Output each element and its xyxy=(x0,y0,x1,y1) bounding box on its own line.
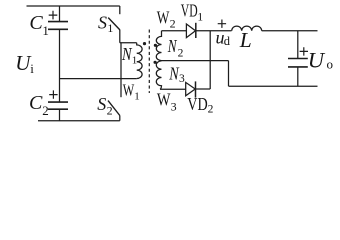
svg-text:W: W xyxy=(157,90,171,110)
wire node A to primary xyxy=(120,42,137,44)
wire VD2 cathode lead xyxy=(196,88,211,90)
secondary winding N3 xyxy=(156,61,161,89)
wire bottom rail xyxy=(38,120,120,122)
wire W3 lead xyxy=(160,88,186,90)
svg-text:U: U xyxy=(308,48,326,73)
svg-text:2: 2 xyxy=(170,16,176,30)
wire inductor to output xyxy=(262,30,318,32)
label ud xyxy=(216,28,231,48)
svg-text:2: 2 xyxy=(42,103,49,118)
label W2 xyxy=(157,7,176,30)
svg-text:3: 3 xyxy=(171,99,177,113)
capacitor C2 xyxy=(48,102,68,121)
capacitor Co branch xyxy=(288,31,308,86)
svg-text:2: 2 xyxy=(107,104,113,118)
svg-text:1: 1 xyxy=(107,21,113,35)
transformer core xyxy=(148,30,150,94)
plus sign ud xyxy=(218,20,226,28)
label W1 xyxy=(123,81,140,103)
polarity dot primary xyxy=(143,42,146,45)
label S2 xyxy=(97,94,112,118)
svg-text:W: W xyxy=(123,81,135,100)
svg-text:C: C xyxy=(29,92,43,114)
label N3 xyxy=(168,63,185,85)
diode VD2 xyxy=(186,81,196,97)
label W3 xyxy=(157,90,177,114)
svg-text:d: d xyxy=(224,34,231,48)
wire node B mid xyxy=(60,78,137,80)
label Ui xyxy=(15,51,34,76)
diode VD1 xyxy=(186,23,195,38)
svg-text:C: C xyxy=(29,12,43,34)
label VD1 xyxy=(181,1,204,24)
wire node A to S2 xyxy=(120,43,122,97)
capacitor C1 xyxy=(48,6,68,29)
label C1 xyxy=(29,12,49,38)
svg-text:i: i xyxy=(30,61,34,76)
plus sign Uo xyxy=(300,47,308,55)
svg-text:o: o xyxy=(327,57,334,72)
polarity dot N2 xyxy=(154,44,157,47)
wire capacitor chain xyxy=(59,29,61,102)
switch S2 xyxy=(108,101,120,121)
svg-text:S: S xyxy=(97,94,106,114)
svg-text:3: 3 xyxy=(179,73,185,85)
svg-text:2: 2 xyxy=(208,104,214,116)
polarity dot N3 xyxy=(154,61,157,64)
inductor L xyxy=(232,26,262,31)
svg-text:1: 1 xyxy=(132,55,138,67)
plus sign C2 xyxy=(49,90,57,98)
plus sign C1 xyxy=(49,11,58,20)
transformer T1 primary winding N1 xyxy=(137,43,142,79)
label S1 xyxy=(98,12,113,35)
label C2 xyxy=(29,92,49,118)
svg-text:1: 1 xyxy=(42,23,49,38)
label N2 xyxy=(167,36,184,59)
wire top rail xyxy=(27,5,120,7)
svg-text:1: 1 xyxy=(197,11,203,23)
label N1 xyxy=(121,44,137,67)
svg-text:L: L xyxy=(239,28,252,52)
secondary winding N2 xyxy=(156,31,161,61)
switch S1 xyxy=(108,6,120,43)
label VD2 xyxy=(187,94,213,116)
label Uo xyxy=(308,48,333,73)
wire output bottom rail xyxy=(229,85,318,87)
wire top output xyxy=(196,30,232,32)
svg-text:1: 1 xyxy=(134,91,140,103)
wire return drop xyxy=(228,61,230,87)
svg-text:VD: VD xyxy=(181,1,198,21)
svg-text:N: N xyxy=(167,36,178,56)
svg-text:2: 2 xyxy=(178,48,184,60)
wire center tap xyxy=(162,60,229,62)
svg-text:W: W xyxy=(157,7,170,27)
svg-text:VD: VD xyxy=(187,94,207,114)
svg-text:S: S xyxy=(98,12,107,32)
wire W2 lead xyxy=(162,30,187,32)
wire cathode rail xyxy=(209,31,211,89)
